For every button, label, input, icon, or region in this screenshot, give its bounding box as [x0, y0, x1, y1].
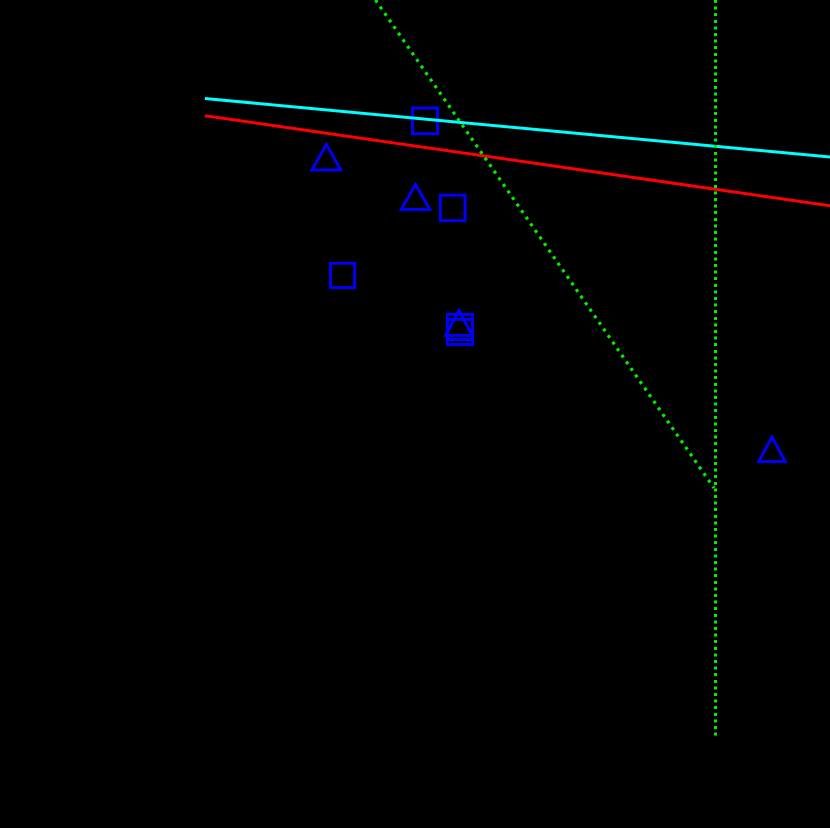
marker triangle F [759, 437, 786, 462]
cluster triangle T [446, 310, 473, 335]
marker triangle C [401, 185, 430, 210]
cluster square S2 [447, 319, 472, 344]
cluster square S1 [447, 314, 472, 339]
marker triangle B [312, 144, 341, 170]
marker square E [330, 263, 354, 287]
marker square D [440, 195, 465, 221]
green dotted vertical line [714, 0, 717, 738]
cyan line [205, 99, 830, 158]
green dotted diagonal line [376, 0, 715, 488]
marker square A [413, 108, 438, 134]
red line [205, 116, 830, 206]
